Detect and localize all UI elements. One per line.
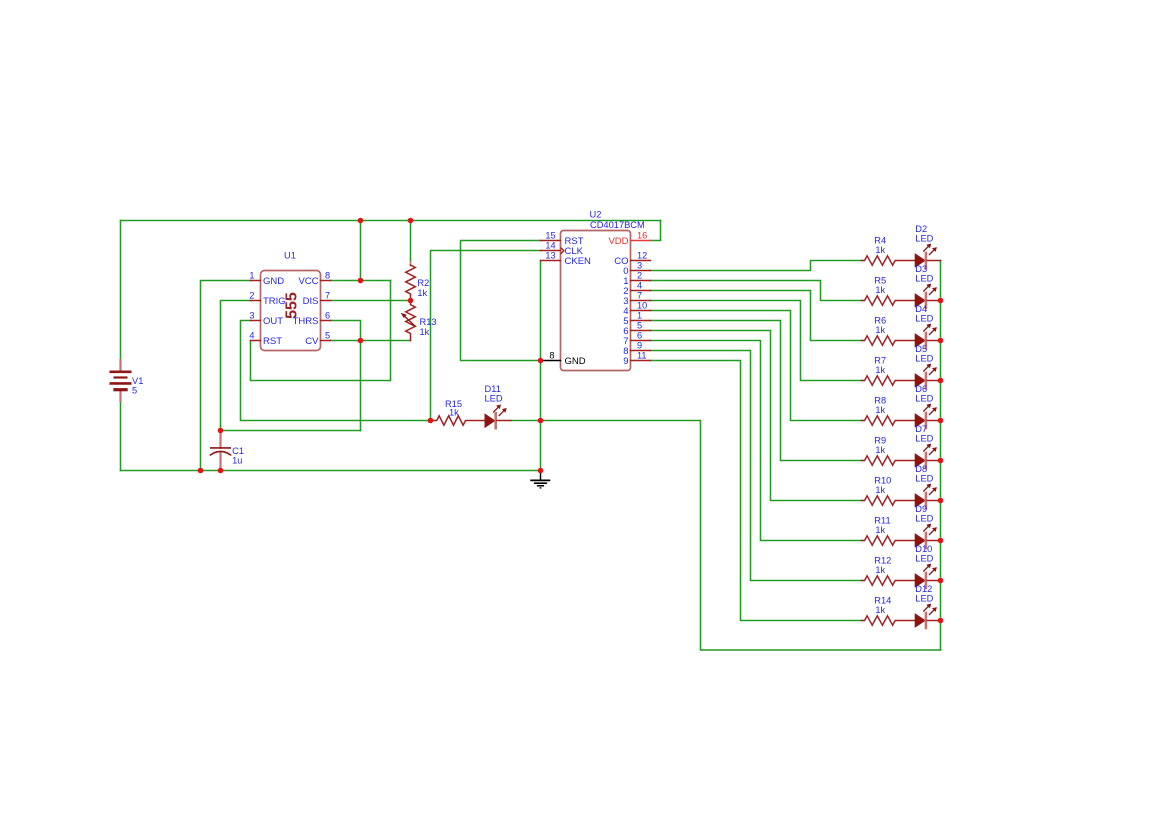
junction node VCC rail / R2 top xyxy=(408,218,414,224)
wire U1 pin1 GND to ground rail xyxy=(201,281,251,471)
resistor R15 xyxy=(431,416,485,425)
U2 pin 13 CKEN xyxy=(541,260,561,262)
svg-text:CD4017BCM: CD4017BCM xyxy=(590,220,645,230)
svg-text:1k: 1k xyxy=(449,408,459,418)
svg-text:12: 12 xyxy=(637,251,647,261)
svg-text:U2: U2 xyxy=(590,210,602,220)
LED D9 xyxy=(915,533,926,548)
svg-text:16: 16 xyxy=(637,231,647,241)
junction LED rail row y=620 xyxy=(938,618,944,624)
svg-text:LED: LED xyxy=(915,434,933,444)
resistor R5 xyxy=(862,296,915,305)
svg-text:13: 13 xyxy=(545,251,555,261)
U1 pin 3 OUT xyxy=(251,320,261,322)
svg-text:1k: 1k xyxy=(875,445,885,455)
svg-text:OUT: OUT xyxy=(263,316,283,327)
svg-text:3: 3 xyxy=(637,261,642,271)
wire C1 top to THRS vertical xyxy=(221,430,361,432)
svg-text:D5: D5 xyxy=(915,344,927,354)
svg-text:LED: LED xyxy=(915,314,933,324)
svg-text:1k: 1k xyxy=(875,285,885,295)
junction node U2 GND pin xyxy=(538,358,544,364)
wire U2 pin13 CKEN down to ground xyxy=(540,261,542,471)
svg-text:10: 10 xyxy=(637,301,647,311)
wire U2 out 3 to LED row y=380 xyxy=(651,301,862,381)
U2 pin 10 output 4 xyxy=(631,310,651,312)
wire bottom ground rail xyxy=(121,470,541,472)
LED D4 xyxy=(915,333,926,348)
junction node VCC rail / feed xyxy=(358,218,364,224)
svg-text:DIS: DIS xyxy=(303,296,319,307)
junction node ground rail / C1 xyxy=(218,468,224,474)
U1 pin 4 RST xyxy=(251,340,261,342)
wire D11 cathode to LED return rail xyxy=(511,421,941,651)
op-amp U1 555 body xyxy=(261,271,321,351)
U1 pin 7 DIS xyxy=(321,300,331,302)
U2 pin 3 output 0 xyxy=(631,270,651,272)
LED D12 xyxy=(915,613,926,628)
U2 CLK edge triangle xyxy=(561,248,564,254)
svg-text:LED: LED xyxy=(915,234,933,244)
svg-text:U1: U1 xyxy=(284,251,296,261)
wire U2 out 7 to LED row y=540 xyxy=(651,341,862,541)
svg-text:D4: D4 xyxy=(915,304,927,314)
svg-text:D8: D8 xyxy=(915,464,927,474)
U1 pin 1 GND xyxy=(251,280,261,282)
svg-text:11: 11 xyxy=(637,351,647,361)
LED D11 xyxy=(485,413,496,428)
svg-text:8: 8 xyxy=(325,271,330,281)
wire LED cathode rail xyxy=(940,261,942,651)
svg-text:D6: D6 xyxy=(915,384,927,394)
svg-text:C1: C1 xyxy=(232,446,244,456)
svg-text:CV: CV xyxy=(305,336,319,347)
U2 pin 2 output 1 xyxy=(631,280,651,282)
LED D8 xyxy=(915,493,926,508)
svg-text:R2: R2 xyxy=(417,278,429,288)
wire battery top xyxy=(120,221,122,361)
U2 pin 12 CO xyxy=(631,260,651,262)
resistor R11 xyxy=(862,536,915,545)
resistor R4 xyxy=(862,256,915,265)
wire U2 out 8 to LED row y=580 xyxy=(651,351,862,581)
capacitor C1 terminals xyxy=(219,431,221,448)
svg-text:GND: GND xyxy=(263,276,284,287)
wire U2 out 1 to LED row y=300 xyxy=(651,281,862,301)
svg-text:LED: LED xyxy=(915,274,933,284)
svg-text:CKEN: CKEN xyxy=(565,256,592,267)
wire R2 top from rail xyxy=(410,221,412,262)
U2 pin 7 output 3 xyxy=(631,300,651,302)
svg-text:5: 5 xyxy=(325,331,330,341)
U2 pin 8 GND xyxy=(541,360,561,362)
wire U1 pin4 RST tie xyxy=(251,281,391,381)
LED D2 xyxy=(915,253,926,268)
svg-text:RST: RST xyxy=(263,336,282,347)
U2 pin 15 RST xyxy=(541,240,561,242)
U2 pin 5 output 6 xyxy=(631,330,651,332)
resistor R12 xyxy=(862,576,915,585)
wire U1 pin2 TRIG to C1 top xyxy=(221,301,251,431)
wire U1 pin8 VCC xyxy=(331,280,391,282)
svg-text:1: 1 xyxy=(249,271,254,281)
svg-text:1k: 1k xyxy=(875,605,885,615)
U2 pin 6 output 7 xyxy=(631,340,651,342)
svg-text:6: 6 xyxy=(637,331,642,341)
junction LED rail row y=500 xyxy=(938,498,944,504)
resistor R14 xyxy=(862,616,915,625)
battery V1 terminals xyxy=(119,360,121,371)
svg-text:1k: 1k xyxy=(875,405,885,415)
svg-text:6: 6 xyxy=(325,311,330,321)
wire U1 pin6 THRS down xyxy=(331,321,361,431)
wire U2 out 4 to LED row y=420 xyxy=(651,311,862,421)
svg-text:VCC: VCC xyxy=(298,276,318,287)
wire U2 out 2 to LED row y=340 xyxy=(651,291,862,341)
wire battery bottom xyxy=(120,401,122,471)
wire U2 out 0 to LED row y=260 xyxy=(651,261,862,271)
svg-text:3: 3 xyxy=(249,311,254,321)
resistor R8 xyxy=(862,416,915,425)
svg-text:D10: D10 xyxy=(915,544,932,554)
junction node VCC / U1 pin8 xyxy=(358,278,364,284)
U1 pin 8 VCC xyxy=(321,280,331,282)
wire U2 pin15 RST to GND xyxy=(461,241,541,361)
U2 pin 1 output 5 xyxy=(631,320,651,322)
svg-text:LED: LED xyxy=(915,514,933,524)
wire top VCC rail xyxy=(121,220,661,222)
svg-text:5: 5 xyxy=(637,321,642,331)
junction LED rail row y=540 xyxy=(938,538,944,544)
svg-text:4: 4 xyxy=(249,331,254,341)
junction node CV-THRS xyxy=(358,338,364,344)
wire U2 out 6 to LED row y=500 xyxy=(651,331,862,501)
svg-text:1k: 1k xyxy=(875,485,885,495)
svg-text:1: 1 xyxy=(637,311,642,321)
wire U2 pin16 VDD from rail xyxy=(651,221,661,241)
wire VCC feed from rail xyxy=(360,221,362,281)
resistor R2 xyxy=(410,262,412,266)
svg-text:D7: D7 xyxy=(915,424,927,434)
svg-text:D11: D11 xyxy=(485,384,501,394)
svg-text:9: 9 xyxy=(623,356,628,367)
ground xyxy=(540,471,542,480)
svg-text:TRIG: TRIG xyxy=(263,296,286,307)
junction node DIS / R2 / R13 xyxy=(408,298,414,304)
junction node D11 cathode / GND xyxy=(538,418,544,424)
LED D7 xyxy=(915,453,926,468)
svg-text:D3: D3 xyxy=(915,264,927,274)
svg-text:1k: 1k xyxy=(420,327,430,337)
wire U2 out 5 to LED row y=460 xyxy=(651,321,862,461)
svg-text:GND: GND xyxy=(565,356,586,367)
junction LED rail row y=460 xyxy=(938,458,944,464)
svg-text:D12: D12 xyxy=(915,584,932,594)
svg-text:THRS: THRS xyxy=(293,316,319,327)
junction LED rail row y=420 xyxy=(938,418,944,424)
svg-text:1k: 1k xyxy=(875,325,885,335)
junction LED rail row y=580 xyxy=(938,578,944,584)
svg-text:D9: D9 xyxy=(915,504,927,514)
svg-text:4: 4 xyxy=(637,281,642,291)
svg-text:VDD: VDD xyxy=(608,236,628,247)
svg-text:2: 2 xyxy=(637,271,642,281)
svg-text:9: 9 xyxy=(637,341,642,351)
svg-text:LED: LED xyxy=(485,394,503,404)
U2 pin 14 CLK xyxy=(541,250,561,252)
svg-text:1k: 1k xyxy=(417,288,427,298)
svg-text:D2: D2 xyxy=(915,224,927,234)
junction LED rail row y=380 xyxy=(938,378,944,384)
junction node ground rail / symbol xyxy=(538,468,544,474)
U2 pin 4 output 2 xyxy=(631,290,651,292)
svg-text:15: 15 xyxy=(545,231,555,241)
svg-text:LED: LED xyxy=(915,474,933,484)
svg-text:1k: 1k xyxy=(875,565,885,575)
junction node TRIG / C1 top xyxy=(218,428,224,434)
junction node OUT / R15 / CLK xyxy=(428,418,434,424)
svg-text:LED: LED xyxy=(915,394,933,404)
IC U2 CD4017BCM body xyxy=(561,231,631,371)
svg-text:1u: 1u xyxy=(232,456,242,466)
resistor R10 xyxy=(862,496,915,505)
U1 pin 6 THRS xyxy=(321,320,331,322)
wire U1 pin5 CV to R13 bottom xyxy=(331,340,411,342)
wire U1 pin3 OUT to R15 junction xyxy=(241,321,431,421)
svg-text:8: 8 xyxy=(549,351,554,361)
junction LED rail row y=300 xyxy=(938,298,944,304)
svg-text:1k: 1k xyxy=(875,525,885,535)
wire U2 out 9 to LED row y=620 xyxy=(651,361,862,621)
svg-text:1k: 1k xyxy=(875,365,885,375)
potentiometer R13 xyxy=(406,301,416,341)
LED D5 xyxy=(915,373,926,388)
wire U2 pin14 CLK from R15 junction xyxy=(431,251,541,421)
LED D3 xyxy=(915,293,926,308)
resistor R9 xyxy=(862,456,915,465)
svg-text:LED: LED xyxy=(915,554,933,564)
svg-text:1k: 1k xyxy=(875,245,885,255)
resistor R6 xyxy=(862,336,915,345)
svg-text:R13: R13 xyxy=(420,317,437,327)
U1 pin 2 TRIG xyxy=(251,300,261,302)
capacitor C1 plates xyxy=(210,447,231,449)
svg-text:14: 14 xyxy=(545,241,555,251)
svg-text:5: 5 xyxy=(132,385,137,395)
svg-text:7: 7 xyxy=(325,291,330,301)
svg-text:2: 2 xyxy=(249,291,254,301)
resistor R7 xyxy=(862,376,915,385)
U2 pin 11 output 9 xyxy=(631,360,651,362)
wire U1 pin7 DIS to R2/R13 junction xyxy=(331,300,411,302)
svg-text:LED: LED xyxy=(915,594,933,604)
U2 pin 16 VDD xyxy=(631,240,651,242)
svg-text:7: 7 xyxy=(637,291,642,301)
U1 pin 5 CV xyxy=(321,340,331,342)
junction node ground rail / U1 GND xyxy=(198,468,204,474)
svg-text:555: 555 xyxy=(283,292,300,319)
svg-text:LED: LED xyxy=(915,354,933,364)
junction LED rail row y=340 xyxy=(938,338,944,344)
LED D10 xyxy=(915,573,926,588)
LED D6 xyxy=(915,413,926,428)
U2 pin 9 output 8 xyxy=(631,350,651,352)
battery V1 plates xyxy=(110,370,132,373)
